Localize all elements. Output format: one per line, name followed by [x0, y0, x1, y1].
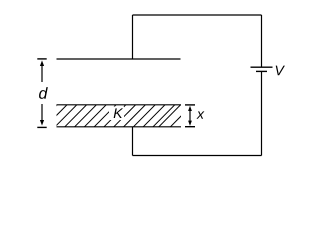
dimension x: double arrow: [188, 106, 192, 126]
dimension d: bottom tick: [37, 126, 46, 128]
label V: [276, 66, 285, 76]
battery V: long plate: [251, 66, 273, 68]
slab bottom edge (bottom plate): [57, 126, 182, 128]
top plate: [57, 58, 181, 60]
battery V: short plate: [256, 70, 267, 72]
wire: right vertical lower (battery to bottom wire): [261, 71, 263, 155]
wire: left vertical (top plate to top wire): [132, 15, 134, 59]
dimension d: top tick: [37, 58, 46, 60]
label d: [39, 87, 48, 99]
wire: bottom horizontal: [133, 155, 262, 157]
dimension d: up arrow: [40, 60, 44, 82]
slab top edge: [57, 104, 182, 106]
wire: vertical from bottom plate: [132, 127, 134, 156]
dimension x: top tick: [185, 104, 195, 106]
label x: [196, 111, 204, 118]
dimension d: down arrow: [40, 104, 44, 126]
dimension x: bottom tick: [185, 126, 195, 128]
wire: top horizontal: [133, 14, 262, 16]
wire: right vertical upper (to battery): [261, 15, 263, 67]
label K: [109, 107, 124, 121]
dielectric slab K hatching: [35, 105, 192, 127]
